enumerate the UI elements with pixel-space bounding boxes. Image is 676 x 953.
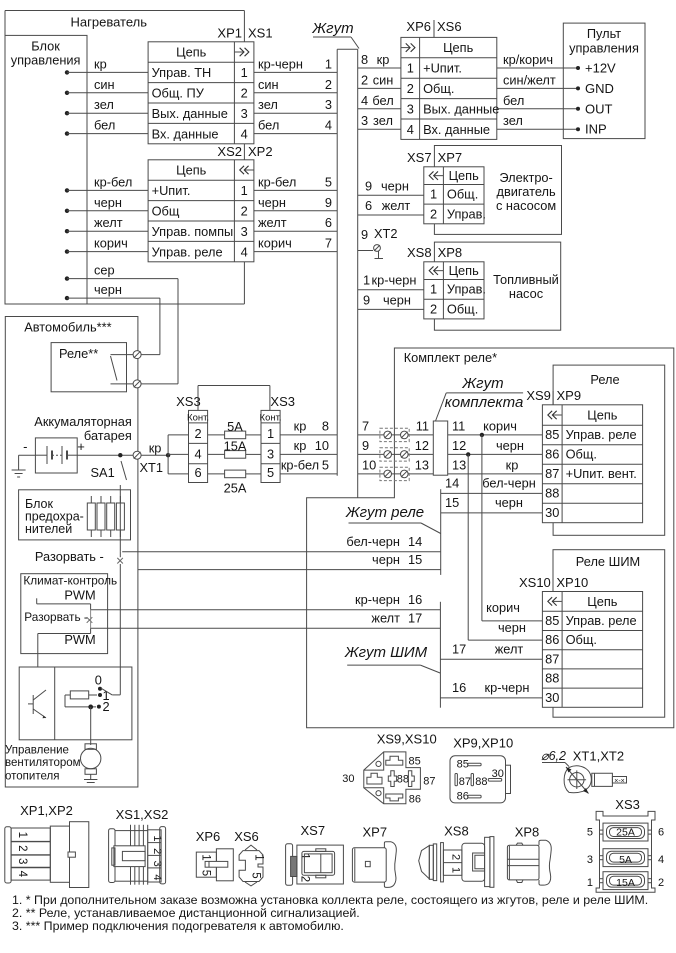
svg-text:зел: зел — [94, 97, 114, 112]
svg-text:комплекта: комплекта — [445, 394, 524, 411]
svg-text:17: 17 — [408, 611, 422, 626]
svg-text:13: 13 — [415, 457, 429, 472]
svg-text:XP8: XP8 — [515, 825, 540, 840]
svg-text:XT2: XT2 — [374, 226, 397, 241]
svg-text:Топливный: Топливный — [493, 272, 559, 287]
svg-text:9: 9 — [361, 227, 368, 242]
svg-text:3: 3 — [361, 113, 368, 128]
svg-text:2: 2 — [299, 876, 311, 882]
svg-text:черн: черн — [94, 282, 122, 297]
svg-text:бел: бел — [258, 118, 279, 133]
svg-text:син: син — [373, 72, 394, 87]
svg-text:8: 8 — [361, 52, 368, 67]
svg-text:9: 9 — [325, 195, 332, 210]
svg-text:с насосом: с насосом — [496, 198, 556, 213]
svg-text:Жгут реле: Жгут реле — [345, 504, 424, 521]
svg-text:15: 15 — [408, 552, 422, 567]
svg-text:Общ.: Общ. — [566, 447, 597, 462]
svg-text:1: 1 — [587, 877, 593, 889]
svg-text:Общ.: Общ. — [423, 81, 454, 96]
svg-text:7: 7 — [362, 418, 369, 433]
svg-text:3: 3 — [587, 854, 593, 866]
svg-text:Управ. реле: Управ. реле — [152, 244, 223, 259]
svg-text:XP6: XP6 — [406, 19, 431, 34]
svg-text:черн: черн — [383, 292, 411, 307]
svg-text:85: 85 — [409, 755, 421, 767]
svg-text:кр-бел: кр-бел — [281, 457, 319, 472]
svg-text:сер: сер — [94, 263, 115, 278]
svg-text:кр: кр — [294, 418, 307, 433]
svg-text:1: 1 — [253, 854, 265, 860]
svg-text:XP2: XP2 — [248, 144, 273, 159]
svg-text:4: 4 — [241, 244, 248, 259]
svg-text:управления: управления — [569, 41, 639, 56]
svg-text:XP10: XP10 — [556, 575, 588, 590]
svg-text:5: 5 — [587, 827, 593, 839]
svg-text:бел: бел — [94, 118, 115, 133]
svg-text:зел: зел — [258, 97, 278, 112]
svg-text:85: 85 — [545, 613, 559, 628]
svg-text:3. *** Пример подключения подо: 3. *** Пример подключения подогревателя … — [12, 919, 344, 933]
svg-text:GND: GND — [585, 81, 614, 96]
svg-text:30: 30 — [545, 505, 559, 520]
svg-text:Жгут: Жгут — [311, 20, 353, 37]
svg-text:2: 2 — [194, 426, 201, 441]
svg-text:0: 0 — [95, 673, 102, 688]
svg-text:кр: кр — [149, 441, 162, 456]
svg-text:корич: корич — [486, 600, 520, 615]
svg-text:INP: INP — [585, 122, 607, 137]
svg-text:кр-бел: кр-бел — [258, 174, 296, 189]
svg-text:XS3: XS3 — [270, 394, 295, 409]
svg-text:XS9: XS9 — [526, 388, 551, 403]
svg-text:Пульт: Пульт — [587, 26, 621, 41]
svg-text:87: 87 — [423, 775, 435, 787]
svg-text:4: 4 — [361, 93, 368, 108]
svg-text:XS9,XS10: XS9,XS10 — [377, 732, 437, 747]
svg-text:Автомобиль***: Автомобиль*** — [24, 320, 111, 335]
svg-text:Цепь: Цепь — [176, 45, 207, 60]
svg-text:Вых. данные: Вых. данные — [152, 106, 228, 121]
svg-text:1: 1 — [151, 835, 163, 841]
svg-text:Общ: Общ — [152, 204, 180, 219]
svg-text:15A: 15A — [224, 439, 247, 454]
svg-text:кр-черн: кр-черн — [372, 272, 417, 287]
svg-text:86: 86 — [409, 793, 421, 805]
svg-text:Электро-: Электро- — [499, 170, 552, 185]
svg-text:3: 3 — [151, 861, 163, 867]
svg-text:XS7: XS7 — [301, 823, 326, 838]
svg-text:кр/корич: кр/корич — [503, 52, 553, 67]
svg-text:8: 8 — [322, 418, 329, 433]
svg-text:XP6: XP6 — [196, 829, 221, 844]
svg-text:25A: 25A — [224, 481, 247, 496]
svg-text:XS6: XS6 — [437, 19, 462, 34]
svg-text:кр: кр — [94, 56, 107, 71]
svg-text:XS2: XS2 — [217, 144, 242, 159]
svg-text:2: 2 — [103, 699, 110, 714]
svg-text:11: 11 — [416, 418, 429, 433]
svg-text:Общ.: Общ. — [447, 301, 478, 316]
svg-text:10: 10 — [315, 438, 329, 453]
svg-text:15: 15 — [445, 495, 459, 510]
svg-text:XS10: XS10 — [519, 575, 551, 590]
svg-text:17: 17 — [452, 641, 466, 656]
svg-text:Комплект реле*: Комплект реле* — [404, 350, 497, 365]
svg-text:Аккумаляторная: Аккумаляторная — [34, 414, 132, 429]
svg-text:5: 5 — [200, 870, 212, 876]
svg-text:6: 6 — [658, 827, 664, 839]
svg-text:5A: 5A — [619, 854, 632, 866]
svg-text:1: 1 — [450, 867, 462, 873]
svg-text:30: 30 — [545, 690, 559, 705]
svg-text:Конт.: Конт. — [260, 412, 282, 423]
svg-text:87: 87 — [545, 651, 559, 666]
svg-text:насос: насос — [509, 286, 544, 301]
svg-text:Управ. ТН: Управ. ТН — [152, 65, 212, 80]
svg-text:9: 9 — [365, 178, 372, 193]
svg-text:XS3: XS3 — [176, 394, 201, 409]
svg-text:4: 4 — [151, 874, 163, 880]
svg-text:1: 1 — [430, 187, 437, 202]
svg-text:88: 88 — [545, 671, 559, 686]
svg-text:3: 3 — [267, 446, 274, 461]
svg-text:6: 6 — [325, 215, 332, 230]
svg-text:Цепь: Цепь — [449, 263, 480, 278]
svg-text:Реле ШИМ: Реле ШИМ — [576, 554, 640, 569]
svg-text:XT1,XT2: XT1,XT2 — [573, 749, 624, 764]
svg-text:3: 3 — [241, 106, 248, 121]
svg-text:14: 14 — [445, 475, 459, 490]
svg-text:черн: черн — [495, 495, 523, 510]
svg-text:XS6: XS6 — [234, 829, 259, 844]
svg-text:черн: черн — [381, 178, 409, 193]
svg-text:кр: кр — [294, 438, 307, 453]
svg-text:XS1,XS2: XS1,XS2 — [116, 807, 169, 822]
svg-text:86: 86 — [545, 632, 559, 647]
svg-text:XP7: XP7 — [363, 825, 388, 840]
svg-text:86: 86 — [545, 447, 559, 462]
svg-text:Управ. помпы: Управ. помпы — [152, 224, 234, 239]
svg-text:1: 1 — [407, 61, 414, 76]
svg-text:1: 1 — [200, 854, 212, 860]
svg-text:Блок: Блок — [31, 39, 60, 54]
svg-text:Разорвать -: Разорвать - — [24, 610, 88, 624]
svg-text:корич: корич — [258, 236, 292, 251]
svg-text:11: 11 — [452, 418, 465, 433]
svg-text:XS1: XS1 — [248, 26, 273, 41]
svg-text:Жгут: Жгут — [461, 375, 503, 392]
svg-text:Управление: Управление — [5, 745, 69, 757]
svg-text:3: 3 — [407, 102, 414, 117]
svg-text:Жгут ШИМ: Жгут ШИМ — [344, 644, 428, 661]
svg-text:2: 2 — [325, 77, 332, 92]
svg-text:1: 1 — [241, 183, 248, 198]
svg-text:3: 3 — [16, 858, 28, 864]
svg-text:Вых. данные: Вых. данные — [423, 102, 499, 117]
svg-text:кр: кр — [377, 52, 390, 67]
svg-text:син: син — [258, 77, 279, 92]
svg-text:16: 16 — [452, 680, 466, 695]
svg-text:6: 6 — [194, 465, 201, 480]
svg-text:черн: черн — [498, 620, 526, 635]
svg-text:кр-черн: кр-черн — [355, 592, 400, 607]
svg-text:черн: черн — [94, 195, 122, 210]
svg-text:XP9,XP10: XP9,XP10 — [453, 736, 513, 751]
svg-text:бел-черн: бел-черн — [482, 475, 536, 490]
svg-text:85: 85 — [545, 427, 559, 442]
svg-text:9: 9 — [363, 292, 370, 307]
svg-text:Общ.: Общ. — [566, 632, 597, 647]
svg-text:+Uпит.: +Uпит. — [423, 61, 462, 76]
svg-text:PWM: PWM — [64, 588, 95, 603]
svg-text:Климат-контроль: Климат-контроль — [23, 574, 117, 588]
svg-text:4: 4 — [325, 118, 332, 133]
svg-text:+: + — [77, 439, 85, 454]
svg-text:XP1: XP1 — [217, 26, 242, 41]
svg-text:86: 86 — [457, 791, 469, 803]
svg-text:88: 88 — [475, 776, 487, 788]
svg-text:4: 4 — [241, 126, 248, 141]
svg-text:+Uпит. вент.: +Uпит. вент. — [566, 466, 637, 481]
svg-text:10: 10 — [362, 457, 376, 472]
svg-text:Реле**: Реле** — [59, 346, 98, 361]
svg-text:желт: желт — [258, 215, 287, 230]
svg-text:13: 13 — [452, 457, 466, 472]
svg-text:кр-черн: кр-черн — [258, 56, 303, 71]
svg-text:⌀6,2: ⌀6,2 — [541, 749, 566, 763]
svg-text:бел: бел — [372, 93, 393, 108]
svg-text:4: 4 — [407, 122, 414, 137]
svg-text:4: 4 — [194, 446, 201, 461]
svg-text:черн: черн — [258, 195, 286, 210]
svg-text:15A: 15A — [616, 877, 635, 889]
svg-text:25A: 25A — [616, 827, 635, 839]
svg-text:2: 2 — [450, 854, 462, 860]
svg-text:Цепь: Цепь — [449, 168, 480, 183]
svg-text:5: 5 — [267, 465, 274, 480]
svg-text:корич: корич — [94, 236, 128, 251]
svg-text:XP9: XP9 — [557, 388, 582, 403]
svg-text:Вх. данные: Вх. данные — [152, 126, 219, 141]
svg-text:OUT: OUT — [585, 101, 613, 116]
svg-text:вентилятором: вентилятором — [5, 757, 81, 769]
svg-text:87: 87 — [545, 466, 559, 481]
svg-text:1: 1 — [16, 832, 28, 838]
svg-text:XT1: XT1 — [140, 460, 163, 475]
svg-text:Управ.: Управ. — [447, 206, 486, 221]
svg-text:бел: бел — [503, 93, 524, 108]
svg-text:85: 85 — [457, 759, 469, 771]
svg-text:4: 4 — [658, 854, 664, 866]
svg-text:2: 2 — [151, 848, 163, 854]
svg-text:Управ. реле: Управ. реле — [566, 427, 637, 442]
svg-text:желт: желт — [371, 611, 400, 626]
svg-text:Цепь: Цепь — [176, 163, 207, 178]
svg-text:Разорвать -: Разорвать - — [35, 549, 104, 564]
svg-text:зел: зел — [503, 113, 523, 128]
svg-text:двигатель: двигатель — [497, 184, 557, 199]
svg-text:SA1: SA1 — [91, 465, 115, 480]
svg-text:Конт.: Конт. — [187, 412, 209, 423]
svg-text:корич: корич — [483, 418, 517, 433]
svg-text:5: 5 — [322, 457, 329, 472]
svg-text:5: 5 — [325, 174, 332, 189]
svg-text:1: 1 — [325, 56, 332, 71]
svg-text:1: 1 — [241, 65, 248, 80]
svg-text:син: син — [94, 77, 115, 92]
svg-text:12: 12 — [415, 438, 429, 453]
svg-text:5: 5 — [250, 872, 262, 878]
svg-text:16: 16 — [408, 592, 422, 607]
svg-text:черн: черн — [496, 438, 524, 453]
svg-text:Реле: Реле — [590, 372, 619, 387]
svg-text:2: 2 — [16, 845, 28, 851]
svg-text:желт: желт — [94, 215, 123, 230]
svg-text:1: 1 — [267, 426, 274, 441]
svg-text:кр-бел: кр-бел — [94, 174, 132, 189]
svg-text:4: 4 — [16, 871, 28, 878]
svg-text:12: 12 — [452, 438, 466, 453]
svg-text:3: 3 — [325, 97, 332, 112]
svg-text:2: 2 — [361, 72, 368, 87]
svg-text:88: 88 — [397, 773, 409, 785]
svg-text:×-×: ×-× — [614, 778, 625, 785]
svg-text:черн: черн — [372, 552, 400, 567]
svg-text:1: 1 — [430, 282, 437, 297]
svg-text:3: 3 — [241, 224, 248, 239]
svg-text:2. ** Реле, устанавливаемое ди: 2. ** Реле, устанавливаемое дистанционно… — [12, 906, 360, 920]
svg-text:88: 88 — [545, 486, 559, 501]
svg-text:зел: зел — [373, 113, 393, 128]
svg-text:2: 2 — [241, 204, 248, 219]
svg-text:бел-черн: бел-черн — [346, 534, 400, 549]
svg-text:XS8: XS8 — [444, 824, 469, 839]
svg-text:Вх. данные: Вх. данные — [423, 122, 490, 137]
svg-text:9: 9 — [362, 438, 369, 453]
svg-text:30: 30 — [342, 773, 354, 785]
svg-text:PWM: PWM — [64, 632, 95, 647]
svg-text:кр: кр — [506, 457, 519, 472]
svg-text:1: 1 — [363, 272, 370, 287]
svg-text:желт: желт — [382, 198, 411, 213]
svg-text:-: - — [23, 439, 27, 454]
svg-text:7: 7 — [325, 236, 332, 251]
svg-text:нителей: нителей — [25, 522, 72, 536]
svg-text:кр-черн: кр-черн — [485, 680, 530, 695]
svg-text:XP1,XP2: XP1,XP2 — [20, 803, 73, 818]
svg-text:+Uпит.: +Uпит. — [152, 183, 191, 198]
svg-text:2: 2 — [658, 877, 664, 889]
svg-text:14: 14 — [408, 534, 422, 549]
svg-text:XP7: XP7 — [438, 150, 463, 165]
svg-text:2: 2 — [430, 206, 437, 221]
svg-text:батарея: батарея — [84, 428, 132, 443]
svg-text:Управ.: Управ. — [447, 282, 486, 297]
svg-text:+12V: +12V — [585, 61, 616, 76]
svg-text:Цепь: Цепь — [587, 594, 618, 609]
svg-text:Управ. реле: Управ. реле — [566, 613, 637, 628]
svg-text:желт: желт — [495, 641, 524, 656]
svg-text:5A: 5A — [227, 419, 243, 434]
svg-text:син/желт: син/желт — [503, 72, 556, 87]
svg-text:2: 2 — [430, 301, 437, 316]
svg-text:Цепь: Цепь — [443, 40, 474, 55]
svg-text:Нагреватель: Нагреватель — [71, 15, 148, 30]
svg-text:6: 6 — [365, 198, 372, 213]
svg-text:XP8: XP8 — [438, 245, 463, 260]
svg-text:XS3: XS3 — [615, 797, 640, 812]
svg-text:управления: управления — [11, 53, 81, 68]
svg-text:1. * При дополнительном заказе: 1. * При дополнительном заказе возможна … — [12, 893, 648, 907]
svg-text:2: 2 — [241, 86, 248, 101]
svg-text:XS7: XS7 — [407, 150, 432, 165]
svg-text:отопителя: отопителя — [5, 770, 59, 782]
svg-text:2: 2 — [407, 81, 414, 96]
svg-text:87: 87 — [459, 776, 471, 788]
svg-text:Общ. ПУ: Общ. ПУ — [152, 86, 205, 101]
svg-text:Цепь: Цепь — [587, 408, 618, 423]
svg-text:Общ.: Общ. — [447, 187, 478, 202]
svg-text:XS8: XS8 — [407, 245, 432, 260]
